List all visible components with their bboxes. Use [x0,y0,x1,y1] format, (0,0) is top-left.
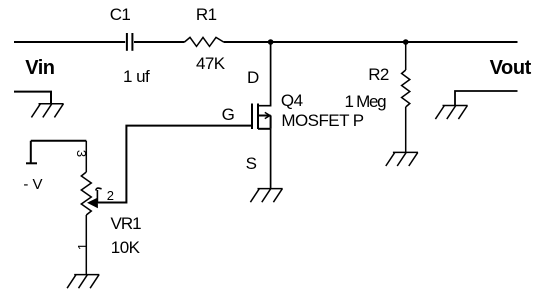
wire -V rail to VR1 top [31,140,87,142]
wire Vin ground stub [14,92,51,104]
ground under Q4 source [250,189,282,203]
potentiometer VR1 body [81,141,91,275]
wire top rail left of C1 [14,41,125,43]
node junction at R2 column [403,39,409,45]
wire gate lead [98,126,251,203]
capacitor C1 [127,33,132,51]
wire source to ground [270,129,272,189]
label R2 [368,66,389,83]
wire R1 to right end [224,41,518,43]
transistor Q4 gate bar [251,104,253,130]
label MOSFET P [281,112,363,129]
resistor R1 [185,37,224,46]
node junction at drain column [268,39,274,45]
label Vin [25,58,54,78]
label VR1 [111,215,141,232]
transistor Q4 bulk-source vertical [270,116,272,129]
label 10K [111,239,140,256]
transistor Q4 channel bar [257,104,259,130]
resistor R2 [402,42,410,152]
label 47K [196,55,225,72]
ground at Vin [31,104,63,118]
pin 3 label rotated [75,150,88,157]
label S [246,155,257,172]
label D [247,69,259,86]
label Vout [490,58,531,78]
transistor Q4 source lead [258,128,271,130]
label Q4 [281,92,303,109]
label -V [23,177,42,192]
potentiometer VR1 wiper [87,188,102,208]
ground at Vout [435,106,467,120]
pin 2 label [107,189,114,202]
wire C1 to R1 [134,41,185,43]
transistor Q4 bulk lead with arrow [258,112,271,118]
label C1 [110,6,131,23]
label R1 [196,6,217,23]
wire Vout ground stub [455,91,518,106]
ground under R2 [386,152,418,166]
label 1 Meg [345,93,386,110]
supply -V terminal [26,141,37,164]
label 1 uf [123,68,149,85]
pin 1 label rotated [76,243,89,250]
ground under VR1 [67,275,99,289]
label G [222,106,235,123]
wire drain vertical [258,42,271,106]
